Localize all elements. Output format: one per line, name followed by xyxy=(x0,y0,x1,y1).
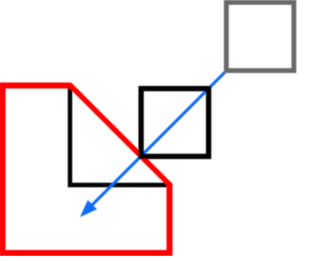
red chamfered square: diagonal edge xyxy=(69,84,171,186)
black square xyxy=(141,89,209,157)
gray square xyxy=(226,3,293,71)
triangle xyxy=(70,86,170,186)
blue arrowhead xyxy=(80,200,97,217)
red chamfered square: ortho edges xyxy=(3,86,170,254)
blue arrow shaft xyxy=(91,71,226,206)
